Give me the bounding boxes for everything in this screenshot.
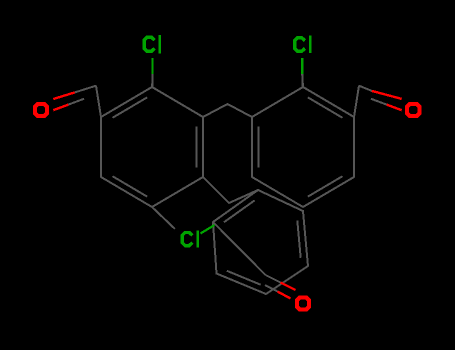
label O left [35,104,47,116]
label Cl bottom [182,233,192,246]
Cl bond gray half top-right [301,74,304,87]
aldehyde C-C bond right [354,86,359,117]
label Cl top-right [295,38,305,52]
bond from ring A bottom vertex toward bottom Cl label [152,207,175,229]
C=O red half left second [53,105,68,111]
Cl bond green bottom [201,225,215,234]
aldehyde C=O gray half bottom second [265,285,278,291]
ring C inner aromatic line e5 [227,271,261,285]
ring A inner aromatic line UL-T [113,97,148,117]
aldehyde C=O gray half left second [68,99,84,105]
aldehyde C=O gray half right second [371,99,387,105]
ring B top-right benzene [252,87,354,207]
ring C bottom benzene (tilted) [213,190,308,294]
ring C inner aromatic line e1 [224,200,255,222]
C=O red half bottom main [281,283,296,291]
ring B inner aromatic line T-UR [308,97,343,117]
label O right [407,104,420,116]
label Cl top-left [144,37,154,51]
ring B inner aromatic line UL-LL [258,127,260,168]
Cl bond green half top-right [301,58,303,74]
CH2 bridge apex between ring A and ring B [203,104,252,117]
Cl bond gray half top-left [151,74,153,87]
C=O red half left main [53,92,75,99]
aldehyde C-C bond left [96,86,101,117]
ring C inner aromatic line e3 [297,220,300,257]
aldehyde C-C bond bottom [213,222,266,275]
CH2 bridge apex between ring A lower-right and ring C top [203,177,258,203]
C=O red half right main [372,91,402,99]
aldehyde C=O gray half bottom main [266,275,281,283]
Cl bond green half top-left [151,58,153,74]
aldehyde C=O gray half left main [75,86,96,93]
aldehyde C=O gray half right main [359,86,372,91]
ring A inner aromatic line UR-LR [196,127,198,168]
ring A top-left benzene [101,87,203,207]
ring A inner aromatic line LL-B [113,176,148,196]
label O bottom [297,298,309,310]
ring B inner aromatic line B-LR [308,176,343,196]
C=O red half right second [387,105,402,111]
C=O red half bottom second [278,292,291,299]
